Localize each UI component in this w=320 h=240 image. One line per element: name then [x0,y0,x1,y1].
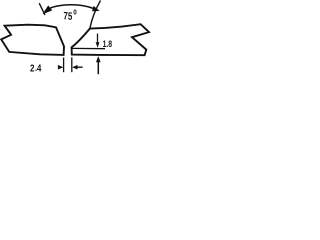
svg-text:75: 75 [63,10,73,23]
svg-text:0: 0 [73,9,77,16]
svg-text:1.8: 1.8 [103,39,113,49]
svg-text:4: 4 [37,63,41,74]
svg-text:2: 2 [30,63,34,74]
